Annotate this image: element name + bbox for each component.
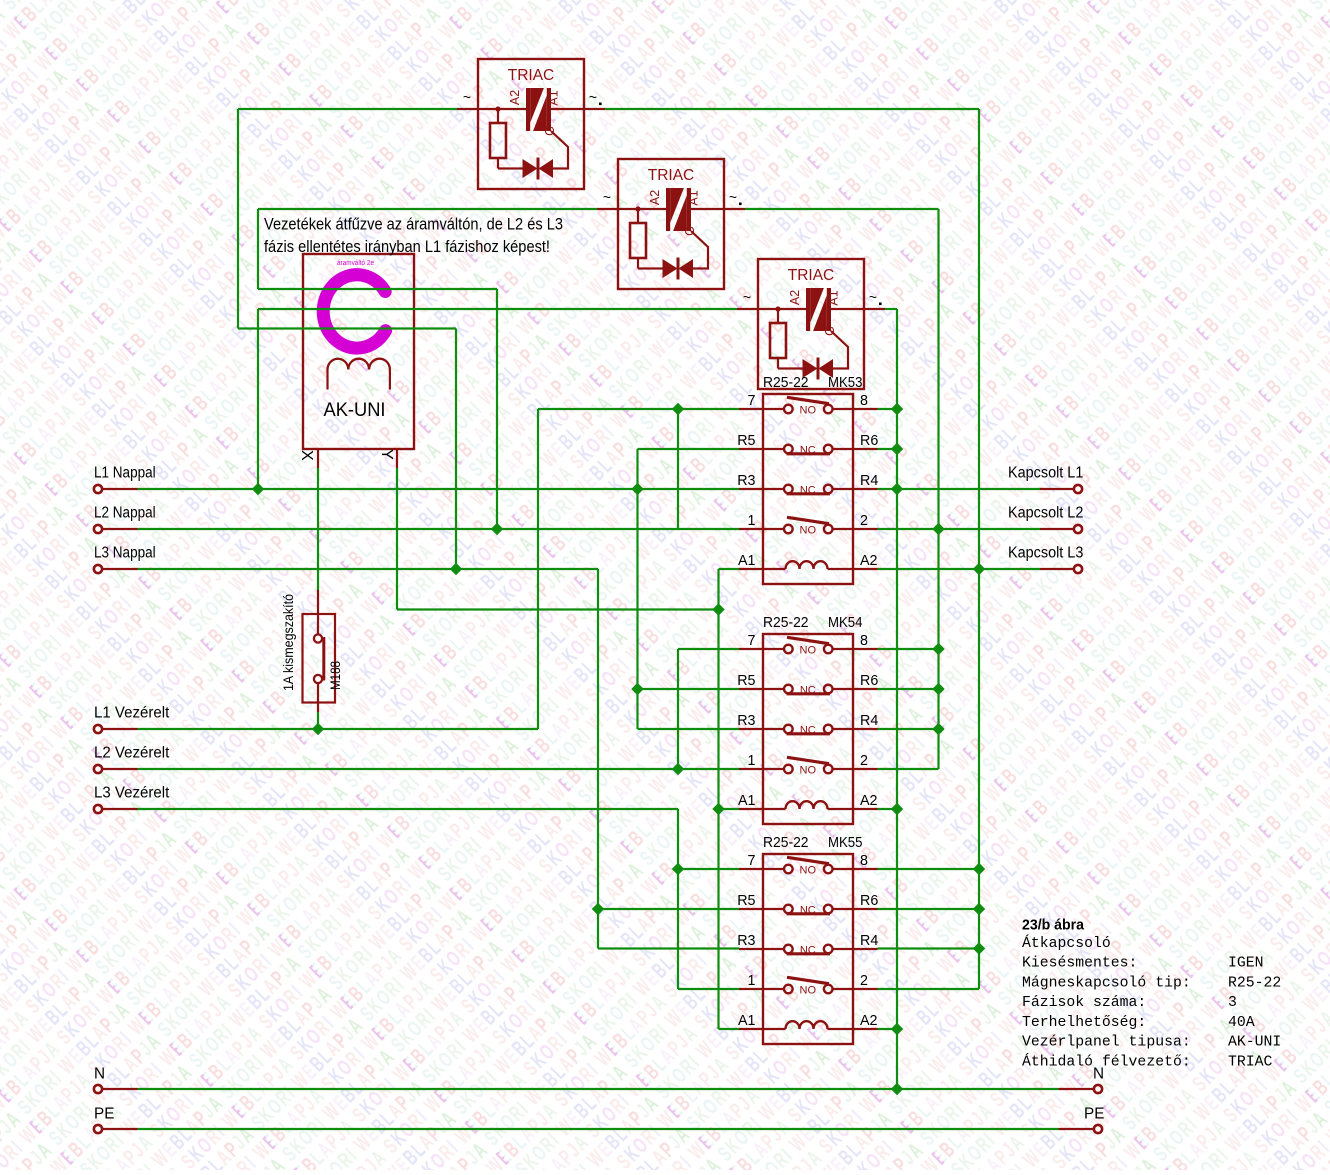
relay MK53 pin A1 stub (739, 568, 763, 570)
wire TRIAC3 right horizontal (885, 308, 897, 310)
svg-text:NO: NO (800, 525, 817, 537)
svg-text:2: 2 (860, 973, 868, 989)
current transformer magenta core (323, 275, 385, 348)
wire fuse bottom (317, 712, 319, 729)
relay MK55 pin 8 stub (853, 868, 878, 870)
wire Kapcsolt L3 horizontal (878, 568, 1041, 570)
circuit breaker M188 pin bottom (317, 683, 319, 712)
wire net L3-Vezérelt horizontal (138, 808, 679, 810)
junction N / coil return (891, 1083, 903, 1095)
svg-text:G: G (823, 326, 837, 336)
TRIAC module TRIAC2 box (618, 159, 724, 289)
relay MK54 contact 7-8 (NO) (763, 648, 784, 650)
diac in TRIAC2 (663, 259, 694, 278)
wire net PE horizontal (138, 1128, 1059, 1130)
gate wire of TRIAC1 (551, 131, 568, 169)
relay MK54 pin A1 stub (739, 808, 763, 810)
relay MK54 box (763, 634, 853, 824)
TRIAC module TRIAC3 box (758, 259, 864, 389)
svg-text:R4: R4 (860, 713, 878, 729)
wire MK54 R4 link (878, 728, 939, 730)
wire MK55 control riser x678 (677, 809, 679, 989)
resistor in TRIAC2 (630, 223, 646, 258)
current transformer secondary coil (328, 359, 390, 370)
svg-text:A2: A2 (860, 1013, 878, 1029)
svg-text:L1 Vezérelt: L1 Vezérelt (94, 705, 170, 722)
svg-text:L3 Vezérelt: L3 Vezérelt (94, 785, 170, 802)
wire MK55 A2 link (878, 1028, 898, 1030)
terminal L2 Vezérelt (left) (94, 765, 102, 773)
relay MK55 box (763, 854, 853, 1044)
svg-text:R4: R4 (860, 473, 878, 489)
relay MK55 contact 1-2 (NO) (763, 988, 784, 990)
svg-text:~: ~ (869, 289, 877, 305)
wire L3 CT drop x456 (455, 329, 457, 570)
svg-text:~: ~ (589, 89, 597, 105)
circuit breaker M188 pin top (317, 590, 319, 635)
svg-text:8: 8 (860, 393, 868, 409)
wire coil A1 chain x718 (717, 569, 719, 1029)
svg-text:MK55: MK55 (828, 835, 863, 851)
wire TRIAC2 right horizontal (745, 208, 939, 210)
wire MK54 pin7-pin1 riser (677, 649, 679, 769)
wire resistor-to-diac TRIAC1 (497, 158, 499, 169)
svg-text:NO: NO (800, 405, 817, 417)
svg-text:2: 2 (860, 513, 868, 529)
svg-text:A1: A1 (738, 1013, 756, 1029)
wire MK55 pin2 link (878, 988, 980, 990)
svg-text:TRIAC: TRIAC (788, 267, 835, 284)
TRIAC module TRIAC1 pin stub left (457, 108, 478, 110)
terminal PE (right) (1094, 1125, 1102, 1133)
svg-text:R4: R4 (860, 933, 878, 949)
svg-text:NO: NO (800, 865, 817, 877)
svg-text:R3: R3 (737, 713, 755, 729)
terminal Kapcsolt L3 (right) (1074, 565, 1082, 573)
wire net N horizontal (138, 1088, 1059, 1090)
svg-text:NO: NO (800, 645, 817, 657)
wire L3 through CT (238, 327, 456, 329)
svg-text:PE: PE (94, 1105, 114, 1122)
junction L2V / MK54 pin1 (672, 763, 684, 775)
resistor in TRIAC1 (490, 123, 506, 158)
relay MK53 coil (763, 568, 786, 570)
svg-text:IGEN: IGEN (1228, 956, 1264, 972)
TRIAC module TRIAC2 internal wire (618, 208, 666, 210)
svg-text:áramváltó 2e: áramváltó 2e (337, 260, 374, 267)
relay MK55 contact R5-R6 (NC) (763, 908, 784, 910)
junction L1V / fuse (312, 723, 324, 735)
relay MK53 pin R3 stub (739, 488, 763, 490)
svg-text:R6: R6 (860, 433, 878, 449)
relay MK53 pin R4 stub (853, 488, 878, 490)
svg-text:1: 1 (748, 753, 756, 769)
TRIAC module TRIAC1 internal wire (478, 108, 526, 110)
junction TRIAC1 out / MK55 pin8 (973, 863, 985, 875)
relay MK54 coil (763, 808, 786, 810)
svg-text:A1: A1 (687, 190, 701, 205)
svg-text:R6: R6 (860, 673, 878, 689)
TRIAC module TRIAC2 pin stub right (724, 208, 745, 210)
svg-text:NC: NC (800, 445, 816, 457)
wire MK53 R5 horizontal (638, 448, 740, 450)
svg-text:G: G (683, 226, 697, 236)
relay MK54 pin R5 stub (739, 688, 763, 690)
wire MK55 R3 horizontal (598, 947, 739, 949)
svg-text:R5: R5 (737, 673, 755, 689)
wire Y to coil chain (397, 608, 719, 610)
relay MK55 pin R6 stub (853, 908, 878, 910)
wire TRIAC2 left horizontal (258, 208, 597, 210)
relay MK53 box (763, 394, 853, 584)
junction TRIAC2 out / Kapcsolt L2 (932, 523, 944, 535)
gate wire of TRIAC3 (831, 331, 848, 369)
junction Y wire / A1 chain (712, 603, 724, 615)
wire Kapcsolt L1 horizontal (878, 488, 1041, 490)
svg-text:7: 7 (748, 853, 756, 869)
relay MK54 pin R3 stub (739, 728, 763, 730)
TRIAC module TRIAC3 internal wire (758, 308, 806, 310)
wire MK54 A1 horizontal (719, 808, 740, 810)
junction x637 riser / MK54 R5 (631, 683, 643, 695)
svg-text:NC: NC (800, 945, 816, 957)
wire MK55 A1 horizontal (719, 1028, 740, 1030)
wire resistor-to-diac TRIAC2 (637, 258, 639, 269)
svg-text:A1: A1 (738, 793, 756, 809)
svg-text:X: X (298, 450, 315, 461)
wire resistor-to-diac TRIAC3 (777, 358, 779, 369)
wire L2 CT drop x497 (496, 289, 498, 529)
svg-text:Fázisok száma:: Fázisok száma: (1022, 995, 1146, 1011)
junction TRIAC1 out / MK55 R4 (973, 942, 985, 954)
svg-text:7: 7 (748, 633, 756, 649)
wire dot-to-resistor TRIAC3 (777, 309, 779, 323)
junction A1 chain / MK54 A1 (712, 803, 724, 815)
wire control riser x538 (537, 409, 539, 729)
svg-text:L1 Nappal: L1 Nappal (94, 465, 156, 482)
relay MK53 pin 7 stub (739, 408, 763, 410)
relay MK54 contact R5-R6 (NC) (763, 688, 784, 690)
wire L3N drop x598 (597, 569, 599, 949)
svg-text:L2 Nappal: L2 Nappal (94, 505, 156, 522)
svg-text:R25-22: R25-22 (1228, 975, 1281, 991)
svg-text:Áthidaló félvezető:: Áthidaló félvezető: (1022, 1052, 1191, 1070)
junction TRIAC2 out / MK54 pin8 (932, 643, 944, 655)
svg-text:AK-UNI: AK-UNI (324, 399, 386, 421)
terminal PE (left) (94, 1125, 102, 1133)
relay MK55 pin A1 stub (739, 1028, 763, 1030)
wire TRIAC1 output drop x979 (978, 109, 980, 989)
junction MK53 pin7 / pin1 riser (672, 403, 684, 415)
relay MK53 pin A2 stub (853, 568, 878, 570)
relay MK55 pin 7 stub (739, 868, 763, 870)
svg-text:2: 2 (860, 753, 868, 769)
wire Kapcsolt L2 horizontal (878, 528, 1041, 530)
svg-text:R3: R3 (737, 473, 755, 489)
junction TRIAC2 out / MK54 R4 (932, 723, 944, 735)
relay MK54 pin 7 stub (739, 648, 763, 650)
current transformer AK-UNI box (303, 254, 414, 449)
triac symbol TRIAC3 (806, 288, 831, 331)
wire MK55 R6 link (878, 908, 980, 910)
TRIAC module TRIAC2 pin stub left (597, 208, 618, 210)
svg-text:~: ~ (743, 289, 751, 305)
gate wire of TRIAC2 (691, 231, 708, 269)
svg-text:8: 8 (860, 853, 868, 869)
svg-text:~: ~ (729, 189, 737, 205)
svg-text:PE: PE (1084, 1105, 1104, 1122)
junction TRIAC1 out / MK55 R6 (973, 903, 985, 915)
relay MK53 pin 8 stub (853, 408, 878, 410)
resistor in TRIAC3 (770, 323, 786, 358)
relay MK53 contact R3-R4 (NC) (763, 488, 784, 490)
svg-text:NC: NC (800, 685, 816, 697)
svg-text:MK53: MK53 (828, 375, 863, 391)
svg-text:A1: A1 (738, 553, 756, 569)
TRIAC module TRIAC1 junction dot (495, 106, 500, 111)
TRIAC module TRIAC1 pin stub right (584, 108, 605, 110)
svg-text:A1: A1 (827, 290, 841, 305)
svg-text:L2 Vezérelt: L2 Vezérelt (94, 745, 170, 762)
svg-text:Terhelhetőség:: Terhelhetőség: (1022, 1015, 1146, 1031)
relay MK54 contact R3-R4 (NC) (763, 728, 784, 730)
svg-text:A2: A2 (860, 553, 878, 569)
svg-text:40A: 40A (1228, 1015, 1255, 1031)
relay MK53 pin R5 stub (739, 448, 763, 450)
terminal N (right) (1094, 1085, 1102, 1093)
svg-text:Kapcsolt L2: Kapcsolt L2 (1008, 505, 1083, 522)
relay MK54 pin R6 stub (853, 688, 878, 690)
relay MK54 pin 2 stub (853, 768, 878, 770)
relay MK54 pin 1 stub (739, 768, 763, 770)
svg-text:R25-22: R25-22 (763, 615, 809, 631)
junction TRIAC3 out / MK53 R6 (891, 443, 903, 455)
triac symbol TRIAC2 (666, 188, 691, 231)
circuit breaker M188 box (303, 614, 336, 703)
junction TRIAC2 out / MK54 R6 (932, 683, 944, 695)
wire TRIAC2 output drop x938 (937, 209, 939, 769)
svg-text:TRIAC: TRIAC (508, 67, 555, 84)
terminal Kapcsolt L2 (right) (1074, 525, 1082, 533)
svg-text:G: G (543, 126, 557, 136)
svg-text:L3 Nappal: L3 Nappal (94, 545, 156, 562)
relay MK53 contact 7-8 (NO) (763, 408, 784, 410)
TRIAC module TRIAC3 junction dot (775, 306, 780, 311)
wire MK54 R5 horizontal (638, 688, 740, 690)
wire L2 branch to CT (257, 209, 259, 289)
wire MK54 R6 link (878, 688, 939, 690)
diac in TRIAC1 (523, 159, 554, 178)
TRIAC module TRIAC2 junction dot (635, 206, 640, 211)
relay MK55 pin R5 stub (739, 908, 763, 910)
relay MK55 pin 2 stub (853, 988, 878, 990)
svg-text:1A kismegszakító: 1A kismegszakító (280, 594, 296, 691)
pin Y stub (396, 449, 398, 468)
svg-text:23/b ábra: 23/b ábra (1022, 918, 1085, 934)
relay MK54 pin A2 stub (853, 808, 878, 810)
wire TRIAC1 left drop x238 (237, 109, 239, 329)
wire MK53 pin1 riser x678 (677, 409, 679, 529)
relay MK53 pin 2 stub (853, 528, 878, 530)
relay MK53 contact 1-2 (NO) (763, 528, 784, 530)
terminal L3 Nappal (left) (94, 565, 102, 573)
wire net L1-Nappal horizontal (138, 488, 740, 490)
relay MK55 contact R3-R4 (NC) (763, 948, 784, 950)
wire MK55 pin7 horizontal (678, 868, 739, 870)
wire net L2-Vezérelt horizontal (138, 768, 740, 770)
svg-text:MK54: MK54 (828, 615, 863, 631)
svg-text:R25-22: R25-22 (763, 835, 809, 851)
svg-text:A2: A2 (860, 793, 878, 809)
relay MK55 contact 7-8 (NO) (763, 868, 784, 870)
svg-text:3: 3 (1228, 995, 1237, 1011)
relay MK53 pin 1 stub (739, 528, 763, 530)
svg-text:NC: NC (800, 485, 816, 497)
svg-text:R5: R5 (737, 893, 755, 909)
wire fuse top (317, 468, 319, 590)
svg-text:Vezetékek átfűzve az áramváltó: Vezetékek átfűzve az áramváltón, de L2 é… (264, 215, 563, 234)
svg-text:fázis ellentétes irányban L1 f: fázis ellentétes irányban L1 fázishoz ké… (264, 237, 550, 256)
junction TRIAC3 out / MK55 A2 (891, 1023, 903, 1035)
terminal Kapcsolt L1 (right) (1074, 485, 1082, 493)
relay MK55 pin 1 stub (739, 988, 763, 990)
svg-text:7: 7 (748, 393, 756, 409)
junction TRIAC3 out / MK54 A2 (891, 803, 903, 815)
wire MK54 A2 link (878, 808, 898, 810)
junction L1N / CT riser (252, 483, 264, 495)
svg-text:~: ~ (603, 189, 611, 205)
wire L1 CT riser x258 (257, 309, 259, 489)
svg-text:Kapcsolt L1: Kapcsolt L1 (1008, 465, 1083, 482)
svg-text:NO: NO (800, 985, 817, 997)
svg-text:TRIAC: TRIAC (648, 167, 695, 184)
TRIAC module TRIAC1 box (478, 59, 584, 189)
svg-text:R6: R6 (860, 893, 878, 909)
circuit breaker M188 contacts (314, 634, 322, 642)
triac symbol TRIAC1 (526, 88, 551, 131)
junction L3V / MK55 pin7 (672, 863, 684, 875)
svg-text:8: 8 (860, 633, 868, 649)
wire MK53 A1 horizontal (719, 568, 740, 570)
svg-text:NC: NC (800, 725, 816, 737)
junction L3N / CT drop (450, 563, 462, 575)
wire MK55 R5 horizontal (598, 908, 739, 910)
junction L1N / R5 riser (631, 483, 643, 495)
wire dot-to-resistor TRIAC1 (497, 109, 499, 123)
wire dot-to-resistor TRIAC2 (637, 209, 639, 223)
svg-text:NC: NC (800, 905, 816, 917)
svg-text:Y: Y (378, 449, 395, 460)
svg-text:AK-UNI: AK-UNI (1228, 1035, 1281, 1051)
wire net L2-Nappal horizontal (138, 528, 740, 530)
TRIAC module TRIAC3 pin stub left (737, 308, 758, 310)
svg-text:N: N (94, 1065, 105, 1082)
svg-text:1: 1 (748, 973, 756, 989)
svg-text:TRIAC: TRIAC (1228, 1054, 1273, 1070)
svg-text:R3: R3 (737, 933, 755, 949)
svg-text:R25-22: R25-22 (763, 375, 809, 391)
junction L3N / MK55 R5 (592, 903, 604, 915)
wire MK54 pin8 link (878, 648, 939, 650)
relay MK53 pin R6 stub (853, 448, 878, 450)
diac in TRIAC3 (803, 359, 834, 378)
junction L2N / CT drop (491, 523, 503, 535)
terminal L1 Nappal (left) (94, 485, 102, 493)
terminal L1 Vezérelt (left) (94, 725, 102, 733)
wire MK53 pin7 horizontal (538, 408, 739, 410)
relay MK55 coil (763, 1028, 786, 1030)
wire MK54 pin7 horizontal (678, 648, 739, 650)
wire net L3-Nappal horizontal (138, 568, 599, 570)
relay MK55 pin A2 stub (853, 1028, 878, 1030)
svg-text:A2: A2 (788, 290, 802, 305)
wire net L1-Vezérelt horizontal (138, 728, 539, 730)
wire MK53 pin8 link (878, 408, 898, 410)
svg-text:~: ~ (463, 89, 471, 105)
terminal L3 Vezérelt (left) (94, 805, 102, 813)
svg-text:Átkapcsoló: Átkapcsoló (1022, 934, 1111, 952)
svg-text:R5: R5 (737, 433, 755, 449)
svg-text:M188: M188 (327, 661, 343, 690)
terminal L2 Nappal (left) (94, 525, 102, 533)
svg-text:A1: A1 (547, 90, 561, 105)
svg-text:Vezérlpanel tipusa:: Vezérlpanel tipusa: (1022, 1035, 1191, 1051)
svg-text:Kapcsolt L3: Kapcsolt L3 (1008, 545, 1083, 562)
wire TRIAC1 left horizontal (238, 108, 457, 110)
wire MK55 pin1 horizontal (678, 988, 739, 990)
wire x637 riser (636, 449, 638, 729)
wire MK55 pin8 link (878, 868, 980, 870)
svg-text:Mágneskapcsoló tip:: Mágneskapcsoló tip: (1022, 975, 1191, 991)
svg-text:A2: A2 (508, 90, 522, 105)
relay MK54 pin 8 stub (853, 648, 878, 650)
svg-text:A2: A2 (648, 190, 662, 205)
svg-text:1: 1 (748, 513, 756, 529)
TRIAC module TRIAC3 pin stub right (864, 308, 885, 310)
junction TRIAC3 out / Kapcsolt L1 (891, 483, 903, 495)
junction TRIAC1 out / Kapcsolt L3 (973, 563, 985, 575)
junction TRIAC3 out / MK53 pin8 (891, 403, 903, 415)
wire MK53 R6 link (878, 448, 898, 450)
relay MK54 pin R4 stub (853, 728, 878, 730)
relay MK54 contact 1-2 (NO) (763, 768, 784, 770)
wire MK55 R4 link (878, 947, 980, 949)
relay MK55 pin R4 stub (853, 948, 878, 950)
wire TRIAC3 output drop x897 (896, 309, 898, 1089)
pin X stub (317, 449, 319, 468)
wire MK54 R3 horizontal (638, 728, 740, 730)
wire MK54 pin2 link (878, 768, 939, 770)
wire Y pin drop (396, 468, 398, 610)
wire TRIAC1 right horizontal (605, 108, 979, 110)
svg-text:Kiesésmentes:: Kiesésmentes: (1022, 956, 1137, 972)
terminal N (left) (94, 1085, 102, 1093)
relay MK53 contact R5-R6 (NC) (763, 448, 784, 450)
svg-text:NO: NO (800, 765, 817, 777)
relay MK55 pin R3 stub (739, 948, 763, 950)
wire L1 through CT to TRIAC3 (258, 308, 737, 310)
